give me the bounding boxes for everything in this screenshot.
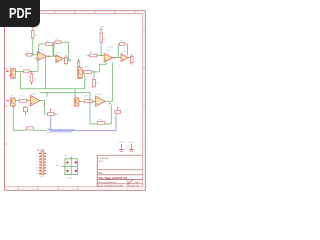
op-amp U2A input marks [105, 55, 106, 60]
pin stub IN left edge [6, 71, 9, 72]
resistor R2 [27, 53, 32, 56]
wire Q4 to R15 [79, 100, 85, 102]
wire U1A minus stub [35, 58, 37, 60]
ground bus wire [20, 88, 84, 90]
op-amp U2B input marks [122, 55, 123, 60]
wire U1A output down [44, 56, 46, 89]
op-amp U2A [104, 53, 113, 62]
resistor R12 [93, 79, 96, 87]
wire green box bottom [34, 129, 48, 131]
resistor R13 [19, 99, 26, 102]
feedback wire U1B [54, 42, 69, 59]
wire R2 left stub [25, 54, 27, 56]
wire C4 up [24, 106, 26, 107]
svg-text:PDF: PDF [9, 5, 32, 22]
frame tick marks left [5, 30, 8, 144]
ground symbol GND2 [129, 144, 134, 151]
op-amp U1B input marks [57, 56, 58, 61]
junction node A [31, 71, 32, 72]
resistor R14 [26, 127, 33, 130]
op-amp U1A input marks [38, 54, 39, 60]
diode D3 [66, 169, 69, 172]
op-amp U3B [96, 96, 106, 107]
resistor R4 [55, 41, 61, 44]
wire R6 bottom stub [31, 82, 33, 85]
wire U2B output [128, 57, 130, 59]
bridge rectifier B1 center bar [70, 159, 72, 175]
wire P1 right stub [54, 113, 57, 115]
ground symbol GND1 [119, 144, 124, 151]
node X U1A output [48, 55, 50, 57]
supply symbol V+ left [31, 28, 34, 29]
wire R5 to node [29, 70, 38, 72]
wire R12 bottom stub [93, 86, 95, 89]
PDF badge text [0, 0, 149, 198]
wire node to R12 [93, 72, 95, 79]
wire U1A output [47, 55, 56, 57]
wire Q2 to R11 [82, 70, 83, 72]
resistor R3 [46, 43, 53, 46]
wire Q3 to R13 [15, 100, 19, 102]
resistor R1 [32, 30, 35, 38]
frame tick marks top [55, 11, 135, 14]
wire U3A output to pot [40, 101, 48, 114]
wire bus down to Q4 [74, 89, 76, 98]
wire node up to U1A [37, 61, 39, 72]
wire C4 down stub [24, 112, 26, 116]
wire R8 to op-amp [97, 54, 104, 56]
wire right channel down to U3B output [112, 63, 114, 102]
wire C2 down to Q2 [78, 66, 80, 67]
capacitor C2 [77, 61, 79, 66]
frame inner border [5, 14, 143, 187]
wire U2A output [113, 57, 121, 59]
blue wire to lid pot [51, 113, 116, 131]
potentiometer P1 [48, 109, 54, 116]
capacitor C1 polarity marks [65, 55, 67, 65]
op-amp U1B [56, 55, 63, 63]
title block outline [97, 155, 143, 187]
wire Q3 down green box left [13, 105, 26, 130]
PDF badge [0, 0, 40, 27]
op-amp U3B input marks [96, 98, 97, 104]
feedback wire U1A [39, 44, 53, 56]
transistor Q4 [74, 98, 79, 106]
wire node to R6 [31, 71, 33, 73]
feedback wire U2B [118, 44, 127, 58]
pin stub left edge lower [6, 100, 9, 101]
wire U1B output [63, 58, 65, 60]
node X U3B output [109, 103, 111, 105]
connector SV1 body [41, 152, 44, 175]
green box right [90, 97, 111, 124]
node X U2A output [114, 57, 116, 59]
wire R2 to op-amp [32, 54, 37, 56]
frame outer border [5, 11, 146, 191]
wire supply to R7 [100, 31, 102, 33]
diode D4 [74, 169, 77, 172]
junction node R1-R2 [32, 54, 33, 55]
wire R11 to node [91, 71, 99, 73]
wire B1 top stub [70, 156, 72, 159]
op-amp U1A [37, 51, 47, 60]
resistor R7 [100, 33, 102, 42]
resistor R5 [24, 70, 30, 73]
resistor R15 [85, 100, 93, 103]
resistor R10 [120, 43, 125, 46]
connector SV1 pin labels right [47, 153, 48, 175]
junction node C [27, 100, 28, 101]
wire Q2 riser to bus [82, 73, 85, 89]
wire R1 to node [32, 38, 34, 55]
wire R15 to op-amp [93, 100, 96, 102]
connector SV1 pins [39, 153, 46, 174]
junction node R7-R8 [101, 55, 102, 56]
diode D2 [74, 161, 77, 164]
resistor R11 [83, 71, 91, 74]
connector SV1 pin labels left [36, 153, 37, 175]
transistor Q1 [11, 68, 16, 78]
transistor Q3 [10, 98, 15, 106]
potentiometer P2 [115, 107, 121, 113]
wire R8 left stub [87, 54, 89, 56]
wire B1 left stub [61, 166, 77, 168]
resistor R16 [97, 121, 105, 124]
capacitor C4 [23, 107, 27, 112]
wire riser to bus left [19, 71, 21, 88]
wire R13 to op-amp [27, 100, 31, 102]
supply symbol V+ right [100, 29, 103, 30]
capacitor C1 [65, 57, 68, 63]
wire supply to R1 [32, 29, 34, 30]
wire U3A feedback drop [46, 92, 48, 97]
junction node D [94, 101, 95, 102]
op-amp U3A input marks [31, 98, 32, 104]
op-amp U3A [30, 95, 40, 106]
op-amp U2B [121, 54, 128, 62]
node X Q1 [9, 75, 11, 77]
bridge rectifier B1 body [65, 159, 77, 175]
resistor R6 [30, 74, 33, 82]
wire U3A top to Q4 block [40, 92, 90, 96]
frame tick marks bottom [18, 187, 78, 191]
capacitor C3 polarity marks [131, 54, 133, 64]
transistor Q2 [78, 68, 83, 79]
wire Q1 to R5 [15, 70, 23, 72]
junction node B [93, 71, 94, 72]
resistor R8 [90, 54, 98, 57]
wire C1 output [67, 59, 71, 61]
diode D1 [66, 161, 69, 164]
frame tick marks right [143, 30, 146, 144]
capacitor C3 [130, 56, 133, 63]
wire R7 to node [100, 42, 102, 55]
wire U3B output [105, 100, 112, 102]
wire U2A plus input bias [99, 62, 106, 72]
wire C2 up stub [78, 59, 80, 61]
node X U3A output [44, 104, 46, 106]
